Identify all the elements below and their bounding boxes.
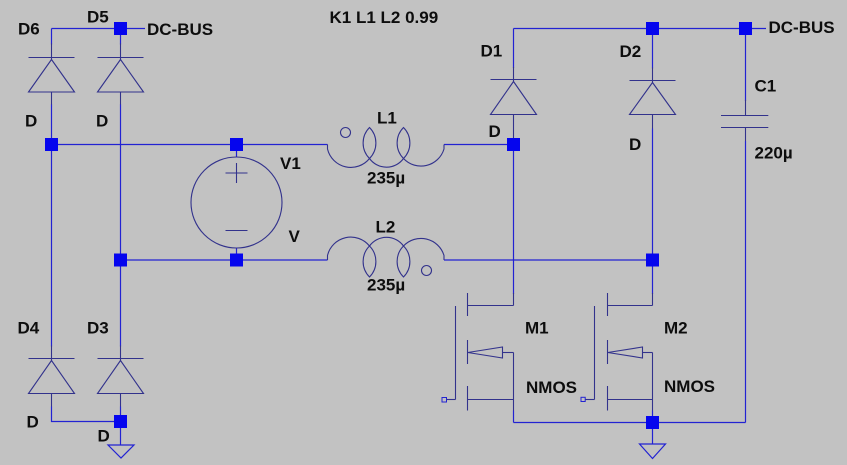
pin M1 gate open square bbox=[442, 398, 447, 403]
wire D2 top lead bbox=[652, 29, 654, 69]
wire D6 top lead bbox=[51, 29, 53, 45]
wire second column D5 anode to D3 cathode bbox=[120, 92, 122, 105]
diode D4 bbox=[29, 359, 75, 394]
wire D5 top lead bbox=[120, 29, 122, 45]
diode D2 bbox=[630, 81, 676, 115]
wire D1 top lead bbox=[513, 29, 515, 69]
svg-text:NMOS: NMOS bbox=[526, 378, 577, 397]
svg-text:L1: L1 bbox=[377, 109, 397, 128]
svg-text:235µ: 235µ bbox=[367, 276, 405, 295]
wire D4 anode to ground node bbox=[51, 394, 53, 407]
transistor M2 bbox=[585, 293, 653, 411]
wire D1 anode to node bbox=[513, 115, 515, 145]
node square L2 to M2 bbox=[646, 254, 659, 267]
wire D2 anode to M2 drain bbox=[652, 115, 654, 129]
diode D1 bbox=[491, 80, 537, 115]
wire M1 source down bbox=[513, 400, 515, 411]
wire L1 to node D bbox=[444, 144, 514, 146]
svg-text:C1: C1 bbox=[755, 77, 777, 96]
wire V1 bottom lead bbox=[236, 248, 238, 260]
svg-text:K1 L1 L2 0.99: K1 L1 L2 0.99 bbox=[330, 8, 439, 27]
svg-text:235µ: 235µ bbox=[367, 169, 405, 188]
wire M2 source down bbox=[652, 400, 654, 411]
svg-text:D5: D5 bbox=[87, 8, 109, 27]
node square D node right bbox=[507, 138, 520, 151]
wire bottom rail bbox=[514, 422, 746, 424]
svg-text:D4: D4 bbox=[18, 319, 40, 338]
wire C1 top lead bbox=[745, 29, 747, 102]
transistor M1 bbox=[446, 293, 514, 411]
svg-text:D1: D1 bbox=[481, 42, 503, 61]
wire L2 to M2 drain column bbox=[444, 259, 653, 261]
wire top-right DC-BUS rail bbox=[514, 28, 767, 30]
node square V1 top bbox=[230, 138, 243, 151]
node square left ground bbox=[114, 415, 127, 428]
svg-text:V1: V1 bbox=[280, 154, 301, 173]
capacitor C1 bbox=[721, 116, 768, 128]
diode D6 bbox=[29, 58, 75, 93]
svg-text:L2: L2 bbox=[376, 218, 396, 237]
node square left mid rail bbox=[45, 138, 58, 151]
svg-text:D: D bbox=[489, 122, 501, 141]
node square lower rail left bbox=[114, 254, 127, 267]
wire mid rail to L1 bbox=[52, 144, 328, 146]
diode D3 bbox=[98, 359, 144, 394]
wire V1 top lead bbox=[236, 145, 238, 158]
svg-text:M2: M2 bbox=[664, 319, 688, 338]
svg-text:D6: D6 bbox=[18, 20, 40, 39]
wire D3 anode to ground node bbox=[120, 394, 122, 407]
svg-text:D: D bbox=[629, 135, 641, 154]
inductor L1 bbox=[328, 128, 445, 168]
node square right ground bbox=[646, 416, 659, 429]
wire left column D6 anode to D4 cathode bbox=[51, 92, 53, 105]
svg-text:D2: D2 bbox=[620, 42, 642, 61]
voltage source V1 bbox=[191, 157, 282, 248]
wire C1 bottom to rail bbox=[745, 128, 747, 142]
ground left bbox=[108, 445, 134, 458]
svg-text:220µ: 220µ bbox=[755, 144, 793, 163]
svg-text:NMOS: NMOS bbox=[664, 377, 715, 396]
svg-text:D: D bbox=[25, 112, 37, 131]
svg-text:D: D bbox=[27, 413, 39, 432]
wire top-left DC-BUS rail bbox=[52, 28, 146, 30]
svg-text:D: D bbox=[96, 112, 108, 131]
node square D2 top bbox=[646, 22, 659, 35]
svg-text:DC-BUS: DC-BUS bbox=[147, 20, 213, 39]
ground right bbox=[640, 444, 666, 459]
wire left ground stub bbox=[120, 428, 122, 446]
node square DC-BUS left bbox=[114, 22, 127, 35]
inductor L2 bbox=[328, 237, 445, 277]
node square C1 top bbox=[739, 22, 752, 35]
diode D5 bbox=[98, 58, 144, 93]
node square V1 bottom bbox=[230, 254, 243, 267]
svg-text:D: D bbox=[98, 427, 110, 446]
pin M2 gate open square bbox=[581, 397, 585, 401]
svg-text:M1: M1 bbox=[525, 319, 549, 338]
svg-text:V: V bbox=[289, 227, 301, 246]
wire lower rail to L2 bbox=[121, 259, 328, 261]
svg-text:DC-BUS: DC-BUS bbox=[769, 18, 835, 37]
svg-text:D3: D3 bbox=[87, 319, 109, 338]
wire right ground stub bbox=[652, 429, 654, 445]
wire M1 drain to node D bbox=[513, 145, 515, 295]
